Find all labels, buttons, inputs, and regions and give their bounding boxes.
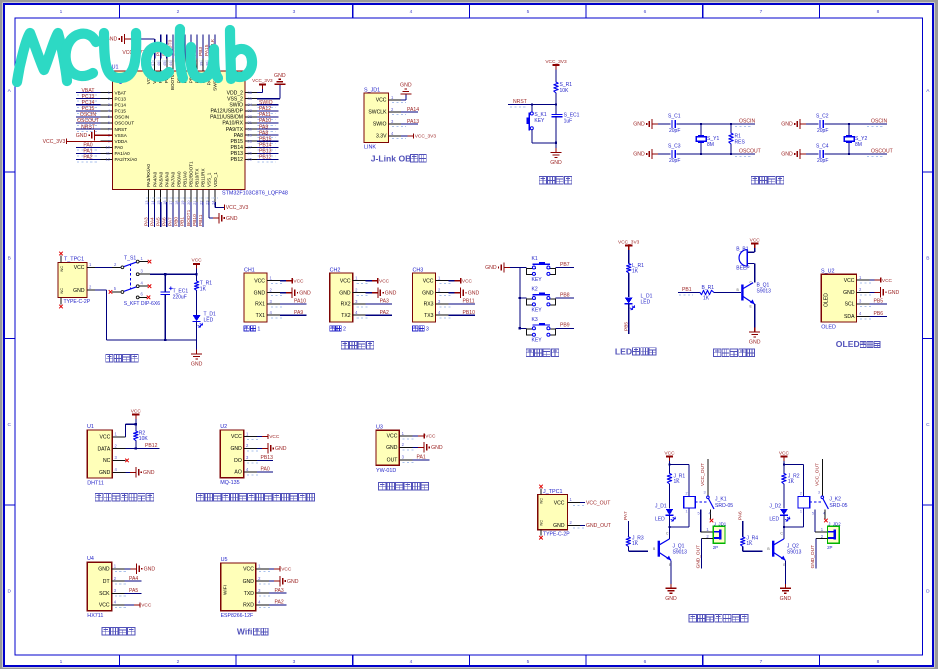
svg-text:1K: 1K [674, 479, 681, 485]
ground (MCU top) [125, 38, 131, 40]
ground (serial) [286, 292, 292, 294]
net label PC15 [77, 112, 97, 114]
LED L_D1 [625, 297, 633, 303]
crystal S_Y2 8M [848, 124, 850, 154]
svg-text:TX3: TX3 [424, 313, 434, 319]
wire top row [825, 123, 888, 125]
resistor S_R1 10K [554, 82, 558, 93]
svg-text:PB11: PB11 [198, 214, 204, 226]
MCU left pin 6 OSCOUT [101, 122, 113, 124]
svg-text:S_C2: S_C2 [816, 114, 829, 120]
wire pin4 [401, 135, 408, 137]
svg-text:2: 2 [343, 327, 346, 333]
wire [555, 143, 557, 148]
svg-text:GND: GND [633, 152, 645, 158]
pin 2 SWCLK [389, 111, 402, 113]
wire to switch [95, 266, 112, 268]
svg-text:PA2: PA2 [83, 155, 92, 161]
wire [184, 202, 186, 227]
wire [202, 202, 204, 227]
wire [510, 267, 520, 269]
svg-text:PB11: PB11 [463, 299, 475, 305]
svg-text:VSSA: VSSA [115, 133, 128, 138]
power VCC_3V3 (J-Link) [408, 135, 414, 137]
svg-text:YW-01D: YW-01D [376, 468, 396, 474]
power VCC (power circuit) [193, 263, 200, 265]
relay switch J_K1 SRD-05 [707, 459, 709, 496]
svg-text:39: 39 [199, 62, 203, 66]
svg-text:VCC: VCC [243, 567, 254, 573]
relay control circuit [538, 450, 734, 602]
svg-text:VCC: VCC [462, 278, 473, 284]
wire VSS_2 to GND [257, 98, 280, 100]
svg-text:NC: NC [539, 498, 543, 504]
ground (MQ-135) [262, 447, 268, 449]
wire pin4 [280, 314, 307, 316]
pin 3 SCL [857, 303, 870, 305]
pin 3 NC [112, 459, 125, 461]
MCU left pin 1 VBAT [101, 92, 113, 94]
svg-text:BEEP: BEEP [736, 266, 750, 272]
svg-text:2P: 2P [827, 545, 832, 550]
svg-text:GND: GND [287, 579, 299, 585]
pin 3 TXD [256, 592, 269, 594]
svg-text:J_K2: J_K2 [829, 496, 841, 502]
wire VCC pin to pullup [124, 424, 126, 437]
relay contact pin 5 wire to connector [700, 510, 702, 532]
pin 3 RX2 [353, 303, 366, 305]
ground (buzzer) [754, 328, 756, 333]
net label PA1 [77, 155, 97, 157]
svg-text:VCC: VCC [379, 278, 390, 284]
MCU left pin 4 PC15 [101, 110, 113, 112]
relay channel 2 [779, 450, 804, 521]
svg-text:VCC_3V3: VCC_3V3 [226, 205, 249, 211]
power VCC (serial) [455, 280, 461, 282]
net label PA12 [258, 112, 276, 114]
svg-text:PA3: PA3 [380, 299, 389, 305]
svg-text:S9013: S9013 [757, 288, 772, 294]
svg-text:8M: 8M [707, 142, 714, 148]
svg-text:KEY: KEY [534, 118, 545, 124]
svg-text:TX1: TX1 [256, 313, 266, 319]
svg-text:12: 12 [106, 157, 111, 162]
pin 2 DT [112, 580, 125, 582]
wire pin2 [257, 447, 262, 449]
svg-text:GND: GND [144, 567, 156, 573]
wire pin1 [257, 436, 262, 438]
svg-text:U2: U2 [220, 424, 227, 430]
svg-text:PA7: PA7 [168, 217, 174, 226]
wire [257, 152, 279, 154]
wire key bus [519, 268, 521, 329]
svg-text:VDD_1: VDD_1 [213, 172, 218, 187]
relay contact pin 5 wire to connector [814, 510, 816, 532]
svg-text:20pF: 20pF [817, 158, 828, 164]
svg-text:VCC: VCC [554, 500, 565, 506]
svg-text:J_JD2: J_JD2 [828, 521, 841, 526]
wire [76, 158, 101, 160]
svg-text:PC13: PC13 [115, 96, 127, 101]
svg-text:1: 1 [800, 509, 802, 513]
MCU left pin 8 VSSA [101, 134, 113, 136]
svg-text:34: 34 [248, 102, 253, 107]
wire pin3 [870, 303, 887, 305]
svg-text:1K: 1K [703, 296, 710, 302]
svg-text:VCC: VCC [192, 258, 203, 264]
MCU bottom pin PA7/A0 [172, 190, 174, 202]
ground (MCU bottom) [213, 217, 219, 219]
svg-text:28: 28 [248, 138, 253, 143]
resistor J_R4 1K (base) [742, 521, 744, 537]
power VCC (buzzer) [751, 243, 758, 245]
svg-text:PB3: PB3 [198, 47, 204, 56]
svg-text:B_B1: B_B1 [736, 247, 748, 253]
net label NRST [77, 131, 97, 133]
svg-text:7: 7 [760, 9, 763, 15]
svg-text:2: 2 [177, 659, 180, 665]
svg-text:OSCOUT: OSCOUT [115, 121, 135, 126]
power VCC (DHT11 pullup) [132, 414, 139, 416]
power VCC (OLED) [875, 279, 881, 281]
MCU bottom pin PB10/TX [196, 190, 198, 202]
svg-text:MQ-135: MQ-135 [220, 480, 239, 486]
pin 1 VCC [256, 568, 269, 570]
svg-text:36: 36 [248, 90, 253, 95]
wire [257, 134, 279, 136]
wire [76, 104, 101, 106]
svg-text:45: 45 [163, 62, 167, 66]
wire [257, 116, 279, 118]
MCU bottom pin PB0/A0 [178, 190, 180, 202]
serial port circuit [244, 267, 479, 349]
power VCC (MQ-135) [262, 436, 268, 438]
MCU top pin SWCLK [214, 58, 216, 71]
svg-text:RES: RES [735, 140, 746, 146]
resistor J_R1 1K [667, 473, 671, 484]
svg-text:LINK: LINK [364, 145, 376, 151]
svg-text:B_R1: B_R1 [702, 285, 715, 291]
svg-text:PA5: PA5 [129, 588, 138, 594]
svg-text:30: 30 [248, 126, 253, 131]
OLED display S_U2 [821, 268, 899, 349]
MCU bottom pin VSS_1 [208, 190, 210, 202]
pin 4 TX1 [267, 314, 280, 316]
wire [160, 35, 162, 59]
power VCC (ESP8266) [274, 568, 280, 570]
title buzzer circuit [714, 349, 721, 356]
resistor R2 10K [134, 431, 138, 441]
wire pin3 [257, 459, 273, 461]
svg-text:GND: GND [274, 73, 286, 79]
svg-text:5: 5 [698, 512, 700, 516]
pin 3 RX1 [267, 303, 280, 305]
ground (DHT11) [130, 471, 136, 473]
svg-text:VCC_3V3: VCC_3V3 [415, 134, 437, 140]
resistor J_R2 1K [782, 473, 786, 484]
crystal S_Y1 8M [700, 124, 702, 154]
wire [257, 110, 279, 112]
wire LED to transistor [783, 515, 785, 539]
MCU right pin 25 PB12 [245, 158, 257, 160]
svg-text:PB0/A0: PB0/A0 [176, 171, 181, 187]
MCU bottom pin PB11/RX [202, 190, 204, 202]
svg-text:RX2: RX2 [341, 302, 351, 308]
svg-text:5: 5 [527, 9, 530, 15]
op: MCU STM32F103C8T6 U1 [43, 34, 288, 227]
pin 1 VCC [436, 280, 449, 282]
title crystal circuit [751, 177, 758, 184]
relay coil J_K1 [684, 496, 696, 508]
svg-text:6: 6 [644, 9, 647, 15]
svg-text:1: 1 [686, 509, 688, 513]
wire to bottom rail [95, 289, 107, 291]
svg-text:44: 44 [169, 62, 173, 66]
net label VBAT [77, 94, 97, 96]
net label PA10 [258, 125, 276, 127]
svg-text:35: 35 [248, 96, 253, 101]
MCU left pin 3 PC14 [101, 104, 113, 106]
svg-text:GND_OUT: GND_OUT [586, 523, 611, 529]
wire [556, 267, 574, 269]
wire [628, 304, 630, 334]
label serial port 3 [413, 326, 418, 331]
svg-text:S_C3: S_C3 [668, 144, 681, 150]
svg-text:S9013: S9013 [787, 550, 802, 556]
transistor B_Q1 S9013 [742, 283, 754, 304]
ESP8266 wifi module U5 [221, 557, 299, 636]
svg-text:GND: GND [553, 523, 565, 529]
svg-text:NC: NC [60, 288, 64, 294]
MCU top pin PB9 [160, 58, 162, 71]
svg-text:K1: K1 [532, 256, 538, 262]
wire [154, 202, 156, 227]
capacitor S_C4 20pF [819, 150, 821, 158]
svg-text:3: 3 [293, 659, 296, 665]
wire bottom rail [107, 339, 197, 341]
power VCC (liquid) [418, 435, 424, 437]
svg-text:DATA: DATA [97, 446, 110, 452]
svg-text:PA2: PA2 [275, 600, 284, 606]
pin 3 RX3 [436, 303, 449, 305]
svg-text:NRST: NRST [115, 127, 128, 132]
wire emitter to GND [670, 560, 672, 584]
svg-text:U4: U4 [87, 556, 94, 562]
MCUclub logo [17, 29, 252, 82]
DHT11 temperature/humidity module U1 [87, 408, 160, 501]
wire [76, 128, 101, 130]
svg-text:OSCOUT: OSCOUT [739, 149, 761, 155]
ground (MCU right) [274, 83, 285, 85]
title power circuit [106, 355, 113, 362]
MCU left pin 11 PA1/A0 [101, 152, 113, 154]
net label PB15 [258, 143, 276, 145]
MCU bottom pin VDD_1 [214, 190, 216, 202]
svg-text:5: 5 [812, 512, 814, 516]
svg-text:OLED: OLED [836, 339, 860, 349]
svg-text:1: 1 [60, 659, 63, 665]
LED T_D1 [193, 315, 201, 321]
wire [76, 122, 101, 124]
pin 1 VCC [389, 99, 402, 101]
key K3 KEY [520, 327, 527, 329]
wire pin2 [412, 446, 418, 448]
MCU left pin 7 NRST [101, 128, 113, 130]
wire [196, 291, 198, 315]
svg-text:RX1: RX1 [255, 302, 265, 308]
wire [196, 268, 198, 281]
pin 2 GND [353, 292, 366, 294]
svg-text:RX3: RX3 [424, 302, 434, 308]
svg-text:C: C [926, 422, 930, 428]
pin 2 GND [436, 292, 449, 294]
wire [257, 146, 279, 148]
key K2 KEY [520, 297, 527, 299]
wire [257, 122, 279, 124]
wire pin3 [449, 303, 476, 305]
net label PA8 [258, 137, 276, 139]
svg-text:33: 33 [248, 108, 253, 113]
key circuit [485, 256, 574, 356]
svg-text:47: 47 [151, 62, 155, 66]
svg-text:GND_OUT: GND_OUT [810, 545, 816, 569]
svg-text:SCL: SCL [845, 302, 855, 308]
wire [806, 123, 819, 125]
wire [202, 35, 204, 59]
key K1 KEY [520, 267, 527, 269]
svg-text:PA5/A0: PA5/A0 [158, 171, 163, 187]
crystal circuit 1 (8M) [633, 114, 761, 165]
wire pin1 [269, 568, 274, 570]
wire pin2 [401, 111, 418, 113]
wire base [742, 547, 744, 552]
svg-text:GND_OUT: GND_OUT [696, 545, 702, 569]
svg-text:1uF: 1uF [564, 118, 573, 124]
svg-text:2: 2 [177, 9, 180, 15]
svg-text:GND: GND [781, 152, 793, 158]
ground (power circuit) [196, 340, 198, 350]
wire [658, 123, 671, 125]
svg-text:PA2: PA2 [380, 310, 389, 316]
svg-text:KEY: KEY [532, 277, 543, 283]
MCU bottom pin PA3/RX/A0 [148, 190, 150, 202]
svg-text:VCC: VCC [387, 434, 398, 440]
ground (HX711) [131, 568, 137, 570]
svg-text:PA1/A0: PA1/A0 [115, 151, 131, 156]
power VCC_3V3 (MCU bottom) [224, 205, 226, 210]
wire [257, 158, 279, 160]
svg-text:PA13: PA13 [407, 119, 419, 125]
node junction [555, 142, 557, 144]
wire VDD_2 to VCC_3V3 [257, 92, 262, 94]
wire emitter [754, 304, 756, 327]
svg-text:1K: 1K [746, 541, 753, 547]
svg-text:GND: GND [76, 133, 88, 139]
svg-text:GND: GND [633, 122, 645, 128]
svg-text:HX711: HX711 [87, 613, 103, 619]
capacitor S_C1 20pF [671, 120, 673, 128]
title temperature humidity module [95, 494, 102, 501]
wire pin4 [257, 471, 273, 473]
relay contact pin 4 no-connect [710, 510, 712, 520]
wire [76, 92, 101, 94]
svg-text:PA3/RX/A0: PA3/RX/A0 [146, 164, 151, 187]
svg-text:LED: LED [641, 299, 651, 305]
MCU top pin VCC [148, 58, 150, 71]
power VCC_3V3 (LED) [625, 245, 632, 247]
MCU top pin PB5 [190, 58, 192, 71]
svg-text:GND: GND [385, 290, 397, 296]
svg-text:C: C [7, 422, 11, 428]
svg-text:1K: 1K [788, 479, 795, 485]
MCU left pin 9 VDDA [101, 140, 113, 142]
wire coil return [688, 508, 690, 527]
svg-text:GND: GND [468, 290, 480, 296]
wire LED to transistor [669, 515, 671, 539]
pin 4 TX2 [353, 314, 366, 316]
pin 3 SWIO [389, 123, 402, 125]
svg-text:PB5: PB5 [623, 322, 629, 331]
wire [178, 35, 180, 59]
wire [628, 250, 630, 264]
svg-text:1K: 1K [632, 541, 639, 547]
svg-text:PA1: PA1 [417, 455, 426, 461]
svg-text:PB1: PB1 [180, 217, 186, 226]
buzzer circuit [678, 237, 771, 356]
svg-text:PA4: PA4 [149, 217, 155, 226]
svg-text:GND: GND [230, 446, 242, 452]
power VCC_3V3 (reset) [552, 64, 559, 66]
svg-text:PA10: PA10 [294, 299, 306, 305]
ground (relay ch) [784, 584, 786, 589]
title reset circuit [539, 177, 546, 184]
wire pin3 [412, 459, 429, 461]
liquid level module U3 [376, 424, 443, 490]
ground (top cap) [800, 123, 806, 125]
power VCC (serial) [286, 280, 292, 282]
svg-text:VCC: VCC [141, 603, 152, 609]
svg-text:29: 29 [248, 132, 253, 137]
MCU right pin 29 PA8 [245, 134, 257, 136]
wire [196, 202, 198, 227]
resistor R1 RES [730, 124, 732, 133]
wire DATA [135, 441, 137, 449]
svg-text:GND: GND [781, 122, 793, 128]
MCU top pin PB6 [184, 58, 186, 71]
svg-text:46: 46 [157, 62, 161, 66]
MQ-135 air quality module U2 [197, 424, 315, 501]
svg-text:GND: GND [226, 216, 238, 222]
pin 2 GND [244, 447, 257, 449]
shell pin bottom with no-connect X [60, 298, 62, 305]
svg-text:OSCIN: OSCIN [739, 119, 755, 125]
svg-text:VCC: VCC [281, 567, 292, 573]
wire [628, 273, 630, 297]
wire [196, 322, 198, 340]
label serial port 2 [330, 326, 335, 331]
wire pin4 [269, 604, 286, 606]
pin 4 AO [244, 471, 257, 473]
svg-text:NRST: NRST [81, 124, 95, 130]
wire [783, 461, 785, 473]
wire top row [677, 123, 756, 125]
resistor T_R1 1K [194, 281, 198, 291]
pin 1 VCC [857, 279, 870, 281]
wire [669, 461, 671, 473]
wire base [714, 292, 741, 294]
svg-text:S_U2: S_U2 [821, 268, 835, 274]
svg-text:VCC: VCC [254, 278, 265, 284]
